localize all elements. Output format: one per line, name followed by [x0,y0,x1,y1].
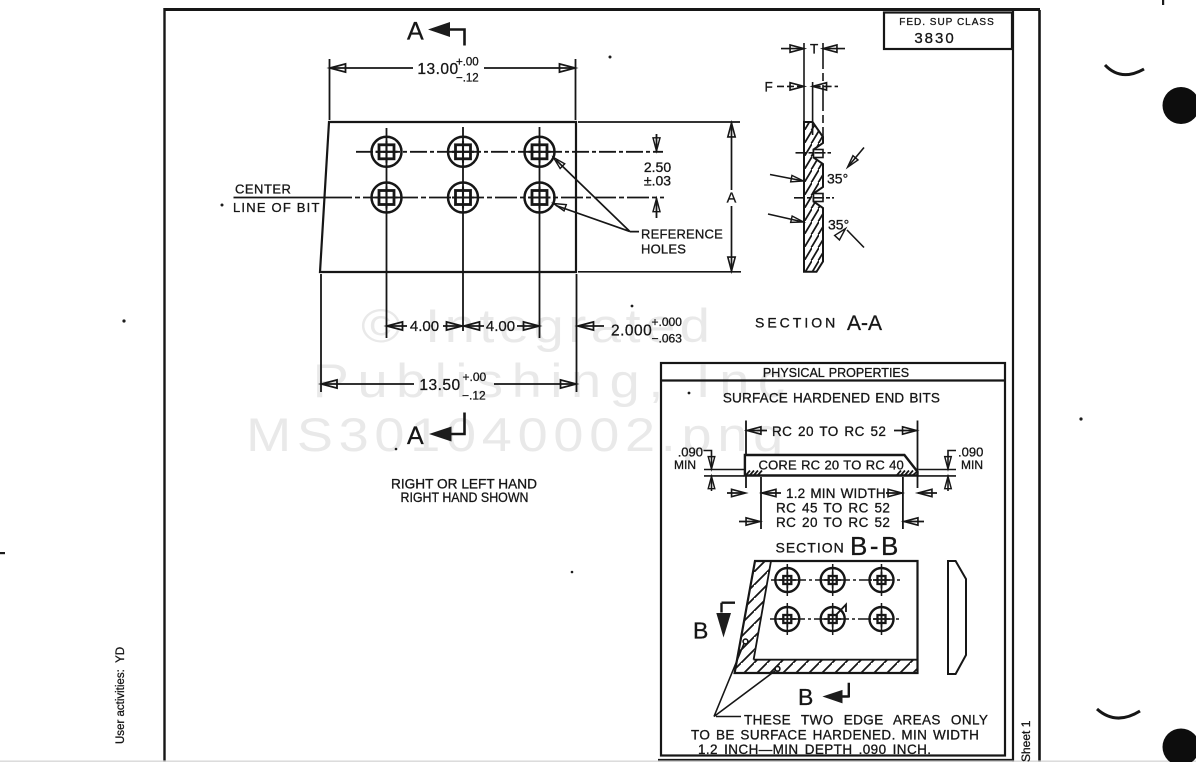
svg-text:SECTION: SECTION [755,315,838,331]
svg-text:SURFACE HARDENED END BITS: SURFACE HARDENED END BITS [723,391,940,406]
svg-text:4.00: 4.00 [410,318,439,335]
svg-text:B: B [798,684,813,710]
svg-text:MIN: MIN [674,458,696,472]
svg-text:MIN: MIN [961,458,983,472]
svg-text:User activities: YD: User activities: YD [115,647,127,744]
svg-text:MS301040002.png: MS301040002.png [246,408,789,461]
svg-text:RC 20 TO RC 52: RC 20 TO RC 52 [772,424,886,439]
svg-text:REFERENCE: REFERENCE [641,227,723,242]
svg-text:3830: 3830 [914,30,955,47]
svg-text:Sheet 1: Sheet 1 [1019,720,1033,762]
svg-text:CORE RC 20 TO RC 40: CORE RC 20 TO RC 40 [759,458,904,473]
svg-text:CENTER: CENTER [235,182,291,197]
svg-text:±.03: ±.03 [644,173,671,189]
svg-text:13.50: 13.50 [419,377,460,394]
svg-text:RIGHT HAND SHOWN: RIGHT HAND SHOWN [401,490,529,505]
svg-text:−.12: −.12 [462,389,486,403]
svg-text:T: T [810,42,818,57]
svg-text:LINE OF BIT: LINE OF BIT [233,200,321,215]
svg-text:A: A [727,191,737,207]
svg-text:B-B: B-B [850,531,901,561]
svg-text:+.00: +.00 [463,370,487,384]
svg-text:−.063: −.063 [652,332,683,346]
svg-text:4.00: 4.00 [486,318,515,335]
svg-text:PHYSICAL PROPERTIES: PHYSICAL PROPERTIES [763,366,909,380]
svg-text:1.2 INCH—MIN DEPTH .090 INCH.: 1.2 INCH—MIN DEPTH .090 INCH. [698,742,931,757]
svg-text:+.00: +.00 [456,57,479,69]
svg-text:35°: 35° [827,171,848,187]
svg-text:HOLES: HOLES [641,242,686,257]
svg-text:B: B [693,618,708,644]
svg-text:+.000: +.000 [652,315,683,329]
svg-text:RC 20 TO RC 52: RC 20 TO RC 52 [776,515,890,530]
svg-text:RC 45 TO RC 52: RC 45 TO RC 52 [776,501,890,516]
svg-text:1.2 MIN WIDTH: 1.2 MIN WIDTH [786,486,886,501]
svg-text:13.00: 13.00 [417,61,458,78]
svg-text:2.000: 2.000 [611,323,652,340]
svg-text:A: A [407,18,424,46]
svg-text:A: A [407,422,424,450]
svg-text:−.12: −.12 [456,73,479,85]
svg-text:TO BE SURFACE HARDENED. MIN WI: TO BE SURFACE HARDENED. MIN WIDTH [691,728,979,743]
svg-text:SECTION: SECTION [776,540,845,556]
svg-text:FED. SUP CLASS: FED. SUP CLASS [899,17,995,28]
svg-text:A-A: A-A [847,312,882,335]
svg-text:F: F [765,80,773,95]
svg-text:THESE TWO EDGE AREAS ONLY: THESE TWO EDGE AREAS ONLY [744,713,988,728]
svg-text:35°: 35° [828,217,849,233]
